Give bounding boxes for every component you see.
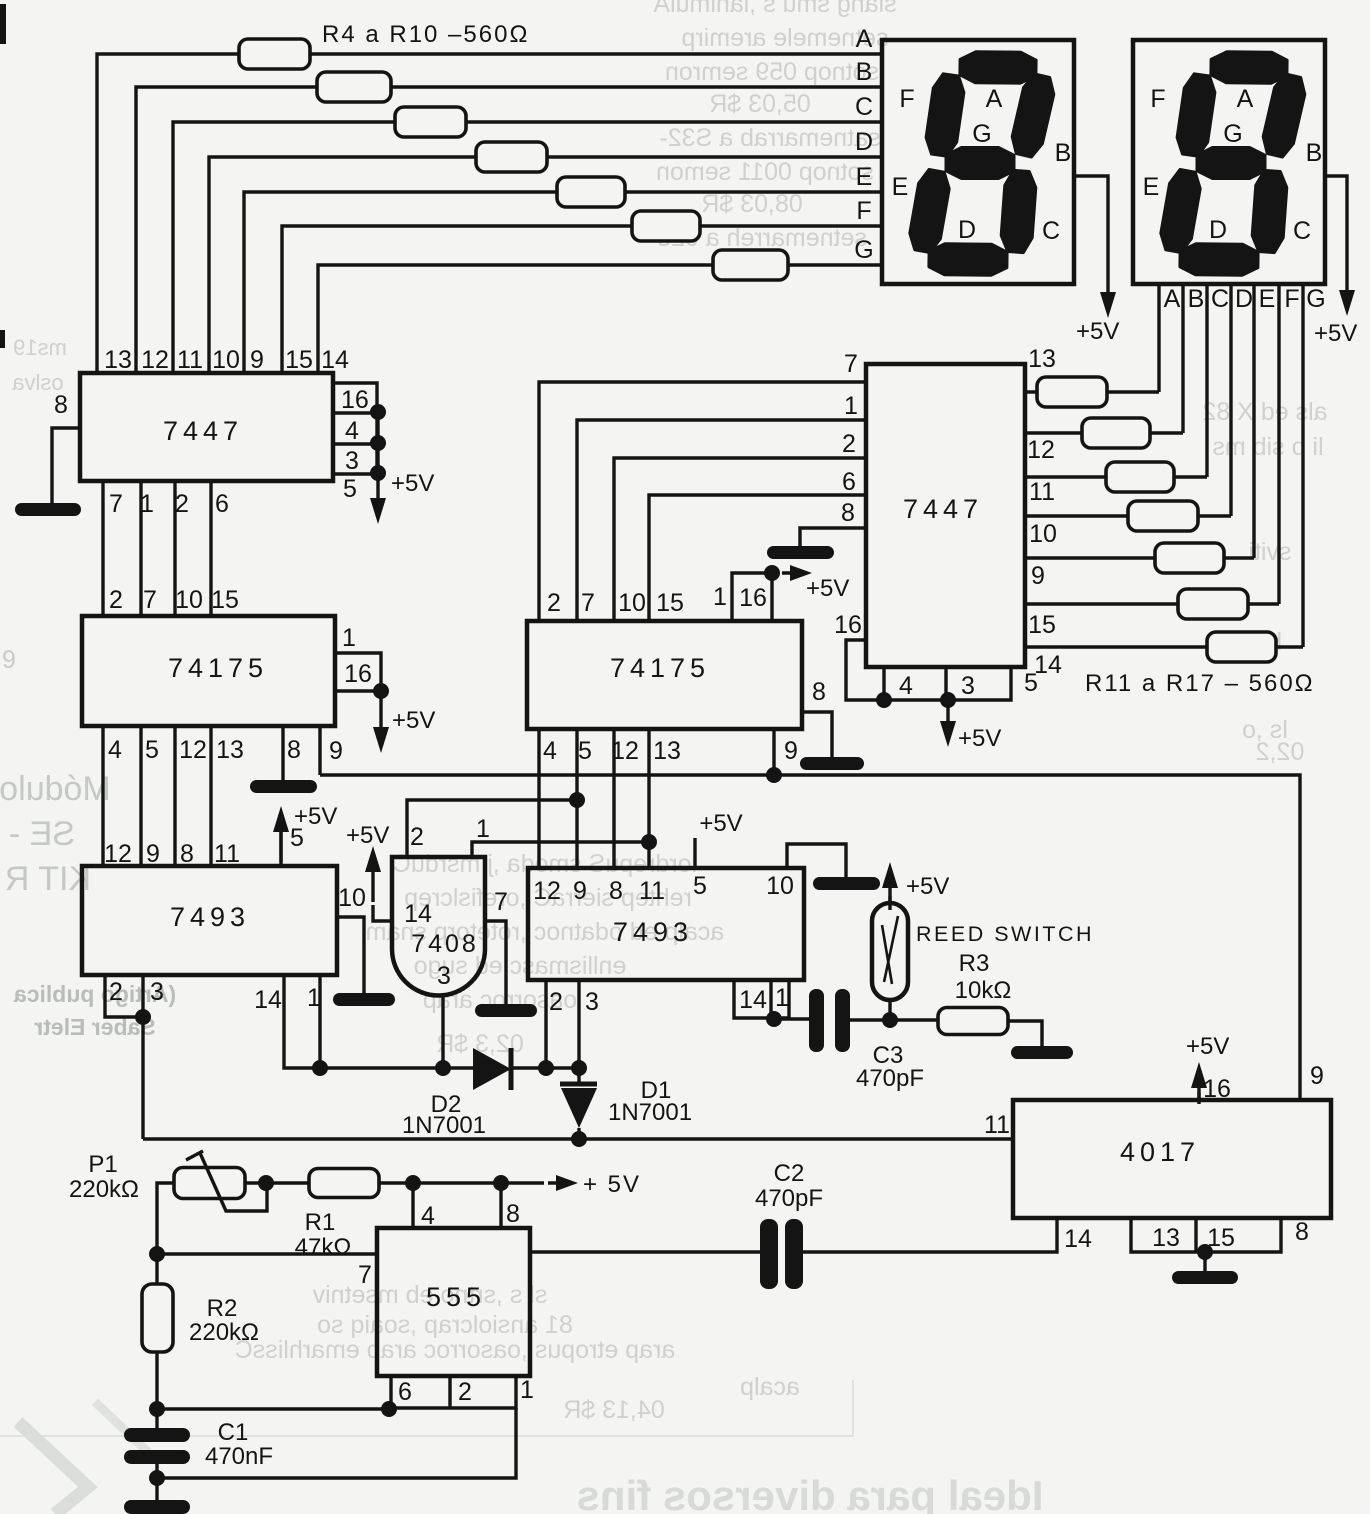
svg-text:4: 4 — [421, 1202, 435, 1230]
svg-text:1: 1 — [844, 392, 858, 420]
resistor R8 (560 ohm) — [557, 177, 625, 207]
resistor R15 (560 ohm) — [1155, 543, 1224, 573]
svg-text:C1: C1 — [218, 1419, 249, 1446]
svg-text:3: 3 — [150, 978, 164, 1006]
svg-text:15: 15 — [211, 586, 239, 614]
svg-text:arap etropus ,oasorroc arap em: arap etropus ,oasorroc arap emarhlissC — [235, 1336, 675, 1364]
svg-text:9: 9 — [250, 346, 264, 374]
+5V arrow (DS1 common) — [1074, 176, 1108, 292]
U3 pins 14,1 joined to count line — [284, 975, 320, 1068]
svg-text:E: E — [1143, 173, 1160, 201]
wire: 7447 U1 pin to segment D of DS1 — [209, 157, 882, 373]
wire: U6 pin to R13 to DS2 segment C — [1025, 285, 1207, 477]
U9 pins 13,15 stub box to ground / pin 8 — [1131, 1218, 1309, 1260]
svg-text:220kΩ: 220kΩ — [69, 1176, 139, 1203]
+5V arrow (rail) — [548, 1181, 568, 1184]
IC U2 74175 latch — [82, 616, 335, 726]
svg-text:1: 1 — [307, 984, 321, 1012]
svg-text:SE -: SE - — [9, 815, 75, 853]
svg-text:15: 15 — [656, 589, 684, 617]
wire: U7 pin 14 node to C3 — [774, 1017, 809, 1020]
svg-text:1: 1 — [775, 984, 789, 1012]
+5V arrow (U3 pin 5) — [279, 820, 282, 866]
svg-text:47kΩ: 47kΩ — [295, 1234, 352, 1261]
svg-text:14: 14 — [404, 900, 432, 928]
U4 pin 7 to ground — [485, 921, 506, 1004]
svg-text:+5V: +5V — [806, 575, 849, 602]
svg-text:9: 9 — [1310, 1062, 1324, 1090]
wire: U6 pin to R12 to DS2 segment B — [1025, 285, 1183, 433]
svg-text:12: 12 — [533, 877, 561, 905]
U2 pin 1 label and pin 16 stub box to +5V — [335, 624, 389, 699]
svg-text:10: 10 — [338, 884, 366, 912]
svg-text:1: 1 — [520, 1376, 534, 1404]
svg-text:1N7001: 1N7001 — [402, 1112, 486, 1139]
resistor R4 (560 ohm) — [239, 39, 310, 69]
svg-text:G: G — [854, 236, 873, 264]
ground (U9 pins 13/15) — [1172, 1271, 1238, 1284]
+5V arrow (U2 supply) — [379, 697, 382, 729]
svg-text:1: 1 — [476, 815, 490, 843]
resistor R9 (560 ohm) — [632, 211, 700, 241]
svg-text:5: 5 — [290, 824, 304, 852]
svg-text:470nF: 470nF — [205, 1443, 273, 1470]
svg-text:REED SWITCH: REED SWITCH — [916, 922, 1094, 946]
wire: U6 pin to R16 to DS2 segment F — [1025, 285, 1279, 604]
wire: P1 left to R2/pin7 node — [157, 1183, 174, 1284]
capacitor C3 470pF — [809, 989, 924, 1092]
svg-text:8: 8 — [841, 499, 855, 527]
IC U7 7493 counter — [528, 868, 804, 980]
svg-text:ms19: ms19 — [13, 335, 67, 360]
U7 pin 10 to ground — [787, 844, 846, 877]
IC U3 7493 counter — [82, 866, 337, 975]
svg-text:14: 14 — [739, 986, 767, 1014]
svg-text:8: 8 — [812, 678, 826, 706]
wire: U6 pin to R15 to DS2 segment E — [1025, 285, 1254, 558]
capacitor C1 470nF — [124, 1419, 273, 1514]
U1 pins 16/4/3 stub boxes to +5V — [333, 383, 386, 503]
svg-text:F: F — [1150, 85, 1165, 113]
wires: U2 pins 4,5,12,13 to U3 pins 12,9,8,11 — [101, 726, 104, 866]
svg-text:2: 2 — [458, 1378, 472, 1406]
svg-text:7: 7 — [494, 888, 508, 916]
7-segment display DS2 — [1133, 40, 1325, 284]
svg-text:7: 7 — [358, 1261, 372, 1289]
svg-text:08,03 $R: 08,03 $R — [701, 190, 802, 218]
+5V arrow (U9 pin 16) — [1197, 1092, 1200, 1100]
svg-text:1: 1 — [713, 583, 727, 611]
svg-text:2: 2 — [109, 586, 123, 614]
svg-text:+5V: +5V — [1076, 318, 1119, 345]
svg-text:14: 14 — [254, 986, 282, 1014]
ground (U5 pin 8) — [800, 757, 864, 770]
svg-text:Ideal para diversos fins: Ideal para diversos fins — [577, 1472, 1044, 1514]
svg-text:B: B — [1055, 139, 1072, 167]
svg-text:A: A — [1164, 285, 1181, 313]
ground (U7 pin 10) — [813, 877, 880, 890]
+5V arrow (DS2 common) — [1327, 176, 1347, 290]
+5V arrow (U4 pin 14) — [373, 905, 392, 921]
svg-text:7493: 7493 — [613, 917, 693, 947]
svg-text:7: 7 — [581, 589, 595, 617]
svg-text:16: 16 — [834, 611, 862, 639]
svg-text:7493: 7493 — [170, 902, 250, 932]
svg-text:10kΩ: 10kΩ — [955, 977, 1012, 1004]
wire: U4 input pin 1 from U5 pin 13 column — [472, 842, 649, 857]
svg-text:10: 10 — [212, 346, 240, 374]
svg-text:9: 9 — [2, 646, 16, 674]
svg-text:11: 11 — [984, 1111, 1010, 1139]
clock bus wire (74175 pin9s to 4017 pin 9) — [320, 775, 1300, 1100]
svg-text:A: A — [1237, 85, 1254, 113]
U7 pins 2,3 down to count line — [546, 980, 579, 1068]
svg-text:2: 2 — [175, 490, 189, 518]
U2 pin 9 wire to common clock bus — [318, 726, 321, 775]
DS2 pin letters — [1164, 285, 1326, 313]
svg-text:+5V: +5V — [1314, 320, 1357, 347]
svg-text:4017: 4017 — [1120, 1137, 1200, 1167]
svg-text:74175: 74175 — [610, 653, 710, 683]
svg-text:G: G — [1306, 285, 1325, 313]
svg-text:16: 16 — [1203, 1075, 1231, 1103]
svg-text:12: 12 — [611, 737, 639, 765]
wires: U6 pins 7,1,2,6 to U5 pins 2,7,10,15 — [539, 382, 866, 621]
U2 pin 8 to ground — [281, 726, 284, 780]
svg-text:7: 7 — [143, 586, 157, 614]
svg-text:3: 3 — [437, 962, 451, 990]
svg-text:4: 4 — [345, 417, 359, 445]
svg-text:14: 14 — [1064, 1225, 1092, 1253]
svg-text:D: D — [855, 128, 873, 156]
resistor R1 47k — [309, 1169, 379, 1198]
svg-text:10: 10 — [1029, 520, 1057, 548]
svg-text:12: 12 — [141, 346, 169, 374]
svg-text:470pF: 470pF — [755, 1185, 823, 1212]
+5V arrow (U1 supply) — [376, 464, 379, 500]
resistor R12 (560 ohm) — [1082, 418, 1150, 448]
svg-text:+ 5V: + 5V — [583, 1171, 641, 1198]
svg-text:11: 11 — [1029, 478, 1055, 506]
svg-text:E: E — [1259, 285, 1276, 313]
resistor R16 (560 ohm) — [1178, 589, 1248, 619]
wire: 7447 U1 pin to segment C of DS1 — [173, 122, 882, 373]
svg-text:2: 2 — [109, 978, 123, 1006]
U6 pin 16 wire looping to supply rail — [846, 640, 884, 700]
ground (U6 pin 8) — [767, 546, 834, 559]
resistor R11 (560 ohm) — [1037, 377, 1107, 407]
svg-text:6: 6 — [842, 468, 856, 496]
IC U1 7447 decoder — [80, 346, 349, 481]
svg-text:5: 5 — [145, 736, 159, 764]
svg-text:slang smu s ,lanimulA: slang smu s ,lanimulA — [653, 0, 896, 18]
diode D2 1N7001 — [402, 1048, 511, 1139]
U5 pin 1 label / pin 16 stub box to +5V — [713, 565, 780, 621]
svg-text:+5V: +5V — [699, 810, 742, 837]
svg-text:04,13 $R: 04,13 $R — [563, 1396, 664, 1424]
svg-text:5: 5 — [343, 475, 357, 503]
svg-text:7408: 7408 — [411, 930, 479, 958]
resistor R3 10k — [890, 1018, 938, 1021]
U3 pins 2,3 joined to reset line — [105, 975, 143, 1139]
resistor R2 220k — [142, 1284, 259, 1352]
ground (U3 pin 10) — [333, 993, 395, 1006]
svg-text:+5V: +5V — [1186, 1033, 1229, 1060]
wire: D2 cathode to U7 pins 2,3 and D1 — [511, 1066, 579, 1069]
U7 pins 14,1 stub box to C3 — [734, 980, 789, 1027]
svg-text:8: 8 — [287, 736, 301, 764]
svg-text:4: 4 — [108, 736, 122, 764]
svg-text:7: 7 — [844, 350, 858, 378]
svg-text:8: 8 — [506, 1200, 520, 1228]
svg-text:02,2: 02,2 — [1256, 738, 1305, 766]
+5V line (U7 pin 5) — [693, 838, 696, 868]
svg-text:B: B — [1306, 139, 1323, 167]
potentiometer P1 220k — [69, 1151, 267, 1211]
wire: 7447 U1 pin to segment F of DS1 — [282, 226, 882, 373]
svg-text:11: 11 — [177, 346, 203, 374]
svg-text:15: 15 — [285, 346, 313, 374]
svg-text:1: 1 — [342, 624, 356, 652]
wire: U4 input pin 2 from U5 pin 5 column — [407, 800, 577, 857]
svg-text:C: C — [1042, 217, 1060, 245]
svg-text:satnemarrab a S32-: satnemarrab a S32- — [660, 124, 881, 152]
svg-text:sotnop 0011 semon: sotnop 0011 semon — [656, 158, 874, 186]
svg-text:81 ansiolcrap ,soaiq so: 81 ansiolcrap ,soaiq so — [317, 1311, 573, 1339]
svg-text:11: 11 — [639, 877, 665, 905]
svg-text:G: G — [1223, 120, 1242, 148]
reed switch S1 — [872, 903, 1094, 1020]
svg-text:9: 9 — [784, 737, 798, 765]
capacitor C2 470pF — [755, 1160, 823, 1289]
ground (R3) — [1011, 1046, 1073, 1059]
svg-text:R2: R2 — [207, 1295, 238, 1322]
wire: U6 pin to R17 to DS2 segment G — [1025, 285, 1303, 647]
svg-text:555: 555 — [426, 1282, 486, 1312]
svg-text:R3: R3 — [959, 950, 990, 977]
svg-text:13: 13 — [104, 346, 132, 374]
svg-text:16: 16 — [739, 584, 767, 612]
svg-text:13: 13 — [1152, 1224, 1180, 1252]
svg-text:als ed X 82: als ed X 82 — [1202, 398, 1327, 426]
svg-text:16: 16 — [341, 386, 369, 414]
wire: 555 pin 7 — [157, 1252, 377, 1255]
svg-text:13: 13 — [1028, 345, 1056, 373]
svg-text:P1: P1 — [88, 1151, 117, 1178]
+5V arrow (U6 supply) — [946, 701, 949, 723]
svg-text:5: 5 — [578, 737, 592, 765]
svg-text:B: B — [856, 58, 873, 86]
svg-text:2: 2 — [410, 823, 424, 851]
IC U9 4017 counter — [984, 1100, 1331, 1218]
U5 pin 9 to clock bus — [772, 729, 775, 775]
IC U8 555 timer — [377, 1228, 530, 1376]
resistor R6 (560 ohm) — [395, 107, 466, 137]
resistor R14 (560 ohm) — [1128, 501, 1198, 531]
U1 pin 8 wire to ground — [52, 428, 80, 503]
svg-text:A: A — [856, 25, 873, 53]
wire: 7447 U1 pin to segment G of DS1 — [318, 265, 882, 373]
svg-text:C: C — [1293, 217, 1311, 245]
svg-text:sotnop 059 semron: sotnop 059 semron — [665, 58, 879, 86]
svg-text:13: 13 — [216, 736, 244, 764]
svg-text:9: 9 — [1031, 562, 1045, 590]
wire: C3 to reed/R3 node — [850, 1018, 890, 1021]
wire R3 to ground — [1008, 1021, 1042, 1046]
ground (U1 pin 8) — [15, 503, 81, 516]
svg-text:li o sib ms: li o sib ms — [1212, 433, 1323, 461]
svg-text:8: 8 — [1295, 1218, 1309, 1246]
svg-text:1: 1 — [140, 490, 154, 518]
wire: U6 pin to R11 to DS2 segment A — [1025, 285, 1159, 392]
svg-text:R1: R1 — [305, 1209, 336, 1236]
ground (U4 pin 7) — [475, 1004, 537, 1017]
svg-text:3: 3 — [585, 988, 599, 1016]
svg-text:6: 6 — [215, 490, 229, 518]
svg-text:C: C — [1211, 285, 1229, 313]
wire: 7447 U1 pin to segment B of DS1 — [136, 87, 882, 373]
svg-text:acalp: acalp — [740, 1373, 800, 1401]
svg-text:16: 16 — [344, 660, 372, 688]
svg-text:8: 8 — [54, 391, 68, 419]
U5 pin 8 to ground — [802, 712, 832, 757]
U9 pin 14 wire to C2 — [803, 1218, 1057, 1252]
svg-text:12: 12 — [1027, 436, 1055, 464]
svg-text:+5V: +5V — [958, 725, 1001, 752]
svg-text:7: 7 — [109, 490, 123, 518]
IC U5 74175 latch — [527, 621, 802, 729]
svg-text:+5V: +5V — [906, 873, 949, 900]
svg-text:+5V: +5V — [391, 470, 434, 497]
U8 pins 6,2,1 stub box — [381, 1376, 534, 1417]
svg-text:A: A — [986, 85, 1003, 113]
svg-text:10: 10 — [766, 872, 794, 900]
resistor R7 (560 ohm) — [476, 142, 547, 172]
svg-text:+5V: +5V — [392, 707, 435, 734]
svg-text:9: 9 — [573, 877, 587, 905]
svg-text:R4 a R10 –560Ω: R4 a R10 –560Ω — [322, 21, 529, 48]
svg-text:2: 2 — [549, 988, 563, 1016]
svg-text:C2: C2 — [774, 1160, 805, 1187]
svg-text:9: 9 — [329, 737, 343, 765]
svg-text:KIT R: KIT R — [5, 860, 91, 898]
svg-text:2: 2 — [842, 430, 856, 458]
svg-text:4: 4 — [543, 737, 557, 765]
wires: U1 pins 7,1,2,6 to U2 pins 2,7,10,15 — [101, 481, 104, 616]
svg-text:7447: 7447 — [903, 494, 983, 524]
wires: U5 pins 4,5,12,13 to U7 pins 12,9,8,11 — [537, 729, 540, 868]
svg-text:4: 4 — [899, 672, 913, 700]
svg-text:F: F — [899, 85, 914, 113]
svg-text:5: 5 — [693, 872, 707, 900]
svg-text:lordrepuS smoda ,j msrduC: lordrepuS smoda ,j msrduC — [393, 850, 697, 878]
svg-text:+5V: +5V — [346, 822, 389, 849]
ground (U2 pin 8) — [250, 780, 317, 793]
svg-text:D: D — [1209, 216, 1227, 244]
7-segment display DS1 — [882, 40, 1074, 284]
svg-text:12: 12 — [179, 736, 207, 764]
resistor R13 (560 ohm) — [1106, 462, 1174, 492]
svg-text:1N7001: 1N7001 — [608, 1099, 692, 1126]
wire: 7447 U1 pin to segment E of DS1 — [244, 192, 882, 373]
count line wire (U3 pin14/1 to D2) — [320, 1066, 473, 1069]
svg-text:74175: 74175 — [168, 653, 268, 683]
svg-text:7447: 7447 — [163, 416, 243, 446]
svg-text:470pF: 470pF — [856, 1065, 924, 1092]
+5V arrow (reed switch pull-up) — [888, 896, 891, 903]
resistor R17 (560 ohm) — [1207, 632, 1276, 662]
svg-text:2: 2 — [547, 589, 561, 617]
svg-text:F: F — [856, 197, 871, 225]
svg-text:220kΩ: 220kΩ — [189, 1319, 259, 1346]
svg-text:10: 10 — [175, 586, 203, 614]
svg-text:13: 13 — [653, 737, 681, 765]
wire: U4 output pin 3 down to count line — [441, 996, 444, 1068]
svg-text:F: F — [1284, 285, 1299, 313]
wire: R2/C1 node to 555 pins 6,2 — [157, 1407, 391, 1410]
wire: 555 pin 1 to C1 bottom — [157, 1408, 516, 1478]
wire: 555 pin 3 to C2 — [530, 1250, 760, 1253]
svg-text:C: C — [855, 93, 873, 121]
svg-text:10: 10 — [618, 589, 646, 617]
svg-text:14: 14 — [1034, 651, 1062, 679]
AND gate U4 7408 — [392, 815, 508, 996]
+5V arrow (U5 supply, pointing right) — [782, 571, 802, 574]
svg-text:E: E — [856, 163, 873, 191]
svg-text:E: E — [892, 173, 909, 201]
svg-text:3: 3 — [345, 447, 359, 475]
svg-text:8: 8 — [609, 877, 623, 905]
svg-text:3: 3 — [961, 672, 975, 700]
wire: 7447 U1 pin to segment A of DS1 — [97, 54, 882, 373]
U6 pins 4,3 stub boxes — [876, 651, 1062, 708]
svg-text:B: B — [1188, 285, 1205, 313]
wire: R2 to C1 node — [155, 1352, 158, 1428]
svg-text:D: D — [1235, 285, 1253, 313]
svg-text:15: 15 — [1028, 611, 1056, 639]
wire: U6 pin to R14 to DS2 segment D — [1025, 285, 1231, 516]
+5V rail wire (P1/R1 to 555 pins 4,8) — [245, 1181, 544, 1184]
U3 pin 10 to ground — [337, 917, 364, 993]
IC U6 7447 decoder — [866, 364, 1025, 667]
svg-text:14: 14 — [321, 346, 349, 374]
svg-text:D: D — [958, 216, 976, 244]
svg-text:Módulo: Módulo — [0, 770, 111, 808]
svg-text:R11 a R17 – 560Ω: R11 a R17 – 560Ω — [1085, 670, 1315, 697]
resistor R5 (560 ohm) — [317, 72, 391, 102]
resistor R10 (560 ohm) — [713, 250, 788, 280]
U6 pin 8 to ground — [800, 528, 866, 546]
reset line wire (U3 pins 2,3 / D1 to 4017 pin 11) — [143, 1137, 1013, 1140]
svg-text:05,03 $R: 05,03 $R — [709, 90, 810, 118]
svg-text:6: 6 — [398, 1378, 412, 1406]
svg-text:G: G — [972, 120, 991, 148]
diode D1 1N7001 — [560, 1068, 692, 1139]
